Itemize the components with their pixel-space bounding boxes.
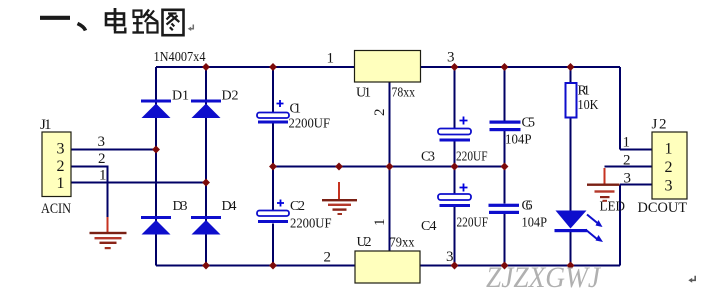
svg-text:J2: J2 bbox=[652, 117, 667, 133]
svg-text:ACIN: ACIN bbox=[41, 201, 71, 217]
一 bbox=[40, 16, 70, 20]
wire J2 pin1 bbox=[620, 149, 652, 151]
wire R1 LED column bbox=[570, 67, 572, 266]
capacitor C6 bbox=[489, 204, 520, 214]
svg-text:C3: C3 bbox=[421, 150, 435, 165]
wire D1 D3 column bbox=[155, 67, 157, 266]
connector J1 bbox=[42, 132, 71, 197]
diode D1 bbox=[141, 100, 171, 119]
svg-text:79xx: 79xx bbox=[390, 236, 415, 251]
wire J2 pin3 bbox=[620, 184, 652, 186]
svg-text:2200UF: 2200UF bbox=[290, 217, 332, 232]
wire U1 pin2 column bbox=[389, 82, 391, 167]
svg-text:ZJZXGWJ: ZJZXGWJ bbox=[486, 261, 602, 292]
svg-text:1: 1 bbox=[57, 175, 65, 192]
svg-text:C5: C5 bbox=[522, 116, 536, 131]
title 一、电路图 bbox=[40, 8, 184, 35]
、 bbox=[78, 24, 86, 31]
svg-text:3: 3 bbox=[447, 50, 455, 66]
svg-text:D4: D4 bbox=[222, 199, 237, 214]
wire C4 column bbox=[454, 167, 456, 266]
capacitor C3 bbox=[438, 117, 471, 142]
电 bbox=[114, 8, 117, 30]
diode D4 bbox=[191, 216, 221, 235]
svg-text:C6: C6 bbox=[522, 199, 533, 214]
wire J1 pin3 bbox=[71, 149, 156, 151]
svg-text:1N4007x4: 1N4007x4 bbox=[154, 50, 206, 65]
wire J2 pin3 vertical bbox=[619, 185, 621, 266]
svg-text:3: 3 bbox=[665, 178, 673, 195]
svg-text:C4: C4 bbox=[421, 219, 437, 234]
regulator U2 bbox=[355, 251, 420, 283]
svg-text:1: 1 bbox=[665, 141, 673, 158]
svg-text:D3: D3 bbox=[173, 199, 188, 214]
wire J2 feed vertical bbox=[619, 67, 621, 150]
LED bbox=[555, 211, 604, 243]
svg-text:1: 1 bbox=[99, 168, 107, 184]
wire J2 pin2 bbox=[605, 166, 653, 168]
svg-text:3: 3 bbox=[624, 171, 632, 187]
ground near J2 bbox=[587, 168, 620, 202]
wire bottom bus bbox=[156, 265, 620, 267]
svg-text:2: 2 bbox=[98, 151, 106, 167]
svg-text:2: 2 bbox=[372, 109, 388, 117]
wire middle ground bus bbox=[273, 166, 505, 168]
wire J1 pin2 bbox=[71, 167, 108, 220]
regulator U1 bbox=[355, 51, 421, 83]
svg-text:D1: D1 bbox=[172, 89, 189, 104]
svg-text:J1: J1 bbox=[40, 117, 52, 133]
svg-text:2: 2 bbox=[623, 153, 631, 169]
wire C1 column bbox=[272, 67, 274, 167]
wire J1 pin1 bbox=[71, 182, 206, 184]
wire C3 column bbox=[454, 67, 456, 167]
svg-text:3: 3 bbox=[446, 249, 454, 265]
svg-text:2: 2 bbox=[324, 250, 332, 266]
wire U2 pin1 column bbox=[389, 167, 391, 252]
svg-text:104P: 104P bbox=[522, 216, 548, 231]
wire top bus bbox=[156, 66, 620, 68]
bottom return mark bbox=[688, 276, 695, 283]
图 bbox=[163, 10, 184, 35]
ground middle bbox=[322, 182, 357, 215]
svg-text:U1: U1 bbox=[356, 86, 371, 101]
wire D2 D4 column bbox=[205, 67, 207, 266]
svg-text:2200UF: 2200UF bbox=[289, 117, 331, 132]
svg-text:78xx: 78xx bbox=[392, 86, 416, 101]
svg-text:3: 3 bbox=[57, 141, 65, 158]
paragraph return mark after title bbox=[188, 25, 194, 32]
ground under J1 bbox=[90, 217, 127, 249]
svg-text:220UF: 220UF bbox=[456, 150, 488, 165]
resistor R1 bbox=[566, 83, 577, 118]
svg-text:DCOUT: DCOUT bbox=[638, 200, 688, 216]
svg-text:C1: C1 bbox=[290, 102, 302, 117]
connector J2 bbox=[652, 132, 687, 199]
capacitor C1 bbox=[257, 100, 289, 124]
svg-text:C2: C2 bbox=[290, 199, 305, 214]
svg-text:220UF: 220UF bbox=[457, 216, 489, 231]
wire C5 column bbox=[504, 67, 506, 167]
svg-text:10K: 10K bbox=[578, 98, 599, 113]
svg-text:3: 3 bbox=[98, 134, 106, 150]
svg-text:U2: U2 bbox=[357, 235, 372, 250]
路 bbox=[134, 11, 142, 18]
svg-text:2: 2 bbox=[665, 159, 673, 176]
diode D3 bbox=[141, 216, 171, 235]
wire C6 column bbox=[504, 167, 506, 266]
capacitor C5 bbox=[490, 121, 521, 132]
wire C2 column bbox=[272, 167, 274, 266]
svg-text:D2: D2 bbox=[222, 89, 239, 104]
svg-text:R1: R1 bbox=[578, 84, 591, 99]
svg-text:1: 1 bbox=[372, 219, 388, 227]
svg-text:104P: 104P bbox=[505, 133, 532, 148]
capacitor C4 bbox=[438, 184, 471, 208]
svg-text:1: 1 bbox=[327, 51, 335, 67]
svg-text:2: 2 bbox=[57, 158, 65, 175]
capacitor C2 bbox=[257, 200, 289, 224]
svg-text:1: 1 bbox=[623, 135, 631, 151]
diode D2 bbox=[191, 100, 221, 119]
